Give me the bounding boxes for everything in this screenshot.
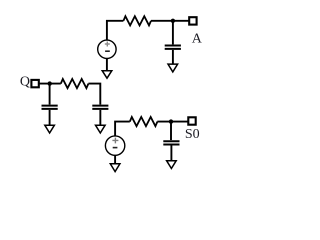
capacitor C3 xyxy=(163,141,179,144)
svg-text:A: A xyxy=(192,31,203,46)
wire V1 top to resistor R1 xyxy=(107,21,124,40)
wire R2 to capacitor C2b xyxy=(88,84,100,105)
ground (under C1) xyxy=(168,64,178,72)
node junction dot (top net) xyxy=(171,19,175,23)
wire R3 to port S0 xyxy=(157,121,188,123)
port S0 square xyxy=(188,117,195,124)
ground (under V2) xyxy=(110,164,120,172)
svg-text:S0: S0 xyxy=(185,127,200,142)
capacitor C2b xyxy=(92,106,108,109)
node junction dot (S0 net) xyxy=(169,119,173,123)
voltage source V1 xyxy=(98,40,116,58)
port Q square xyxy=(31,80,38,87)
wire port Q to resistor R2 xyxy=(39,83,61,85)
wire junction to capacitor C1 xyxy=(172,21,174,45)
wire R1 to port A xyxy=(151,20,189,22)
wire C2a to ground xyxy=(49,110,51,125)
svg-text:Q: Q xyxy=(20,75,30,90)
wire junction to capacitor C3 xyxy=(170,122,172,141)
node junction dot (Q net) xyxy=(48,81,52,85)
ground (under V1) xyxy=(102,71,112,79)
voltage source V2 xyxy=(105,136,124,155)
wire V2 bottom to ground xyxy=(114,155,116,163)
wire V2 top to resistor R3 xyxy=(115,122,130,136)
wire C2b to ground xyxy=(99,110,101,125)
port A square xyxy=(189,17,196,24)
capacitor C2a xyxy=(42,106,58,109)
capacitor C1 xyxy=(165,46,181,49)
ground (under C2a) xyxy=(45,125,55,133)
resistor R1 xyxy=(123,16,151,25)
ground (under C3) xyxy=(167,161,177,169)
wire junction Q down to capacitor C2a xyxy=(49,84,51,105)
ground (under C2b) xyxy=(96,125,106,133)
resistor R3 xyxy=(130,117,158,126)
wire C3 to ground xyxy=(170,146,172,161)
wire V1 bottom to ground xyxy=(106,59,108,71)
resistor R2 xyxy=(61,79,89,88)
wire C1 to ground xyxy=(172,50,174,64)
